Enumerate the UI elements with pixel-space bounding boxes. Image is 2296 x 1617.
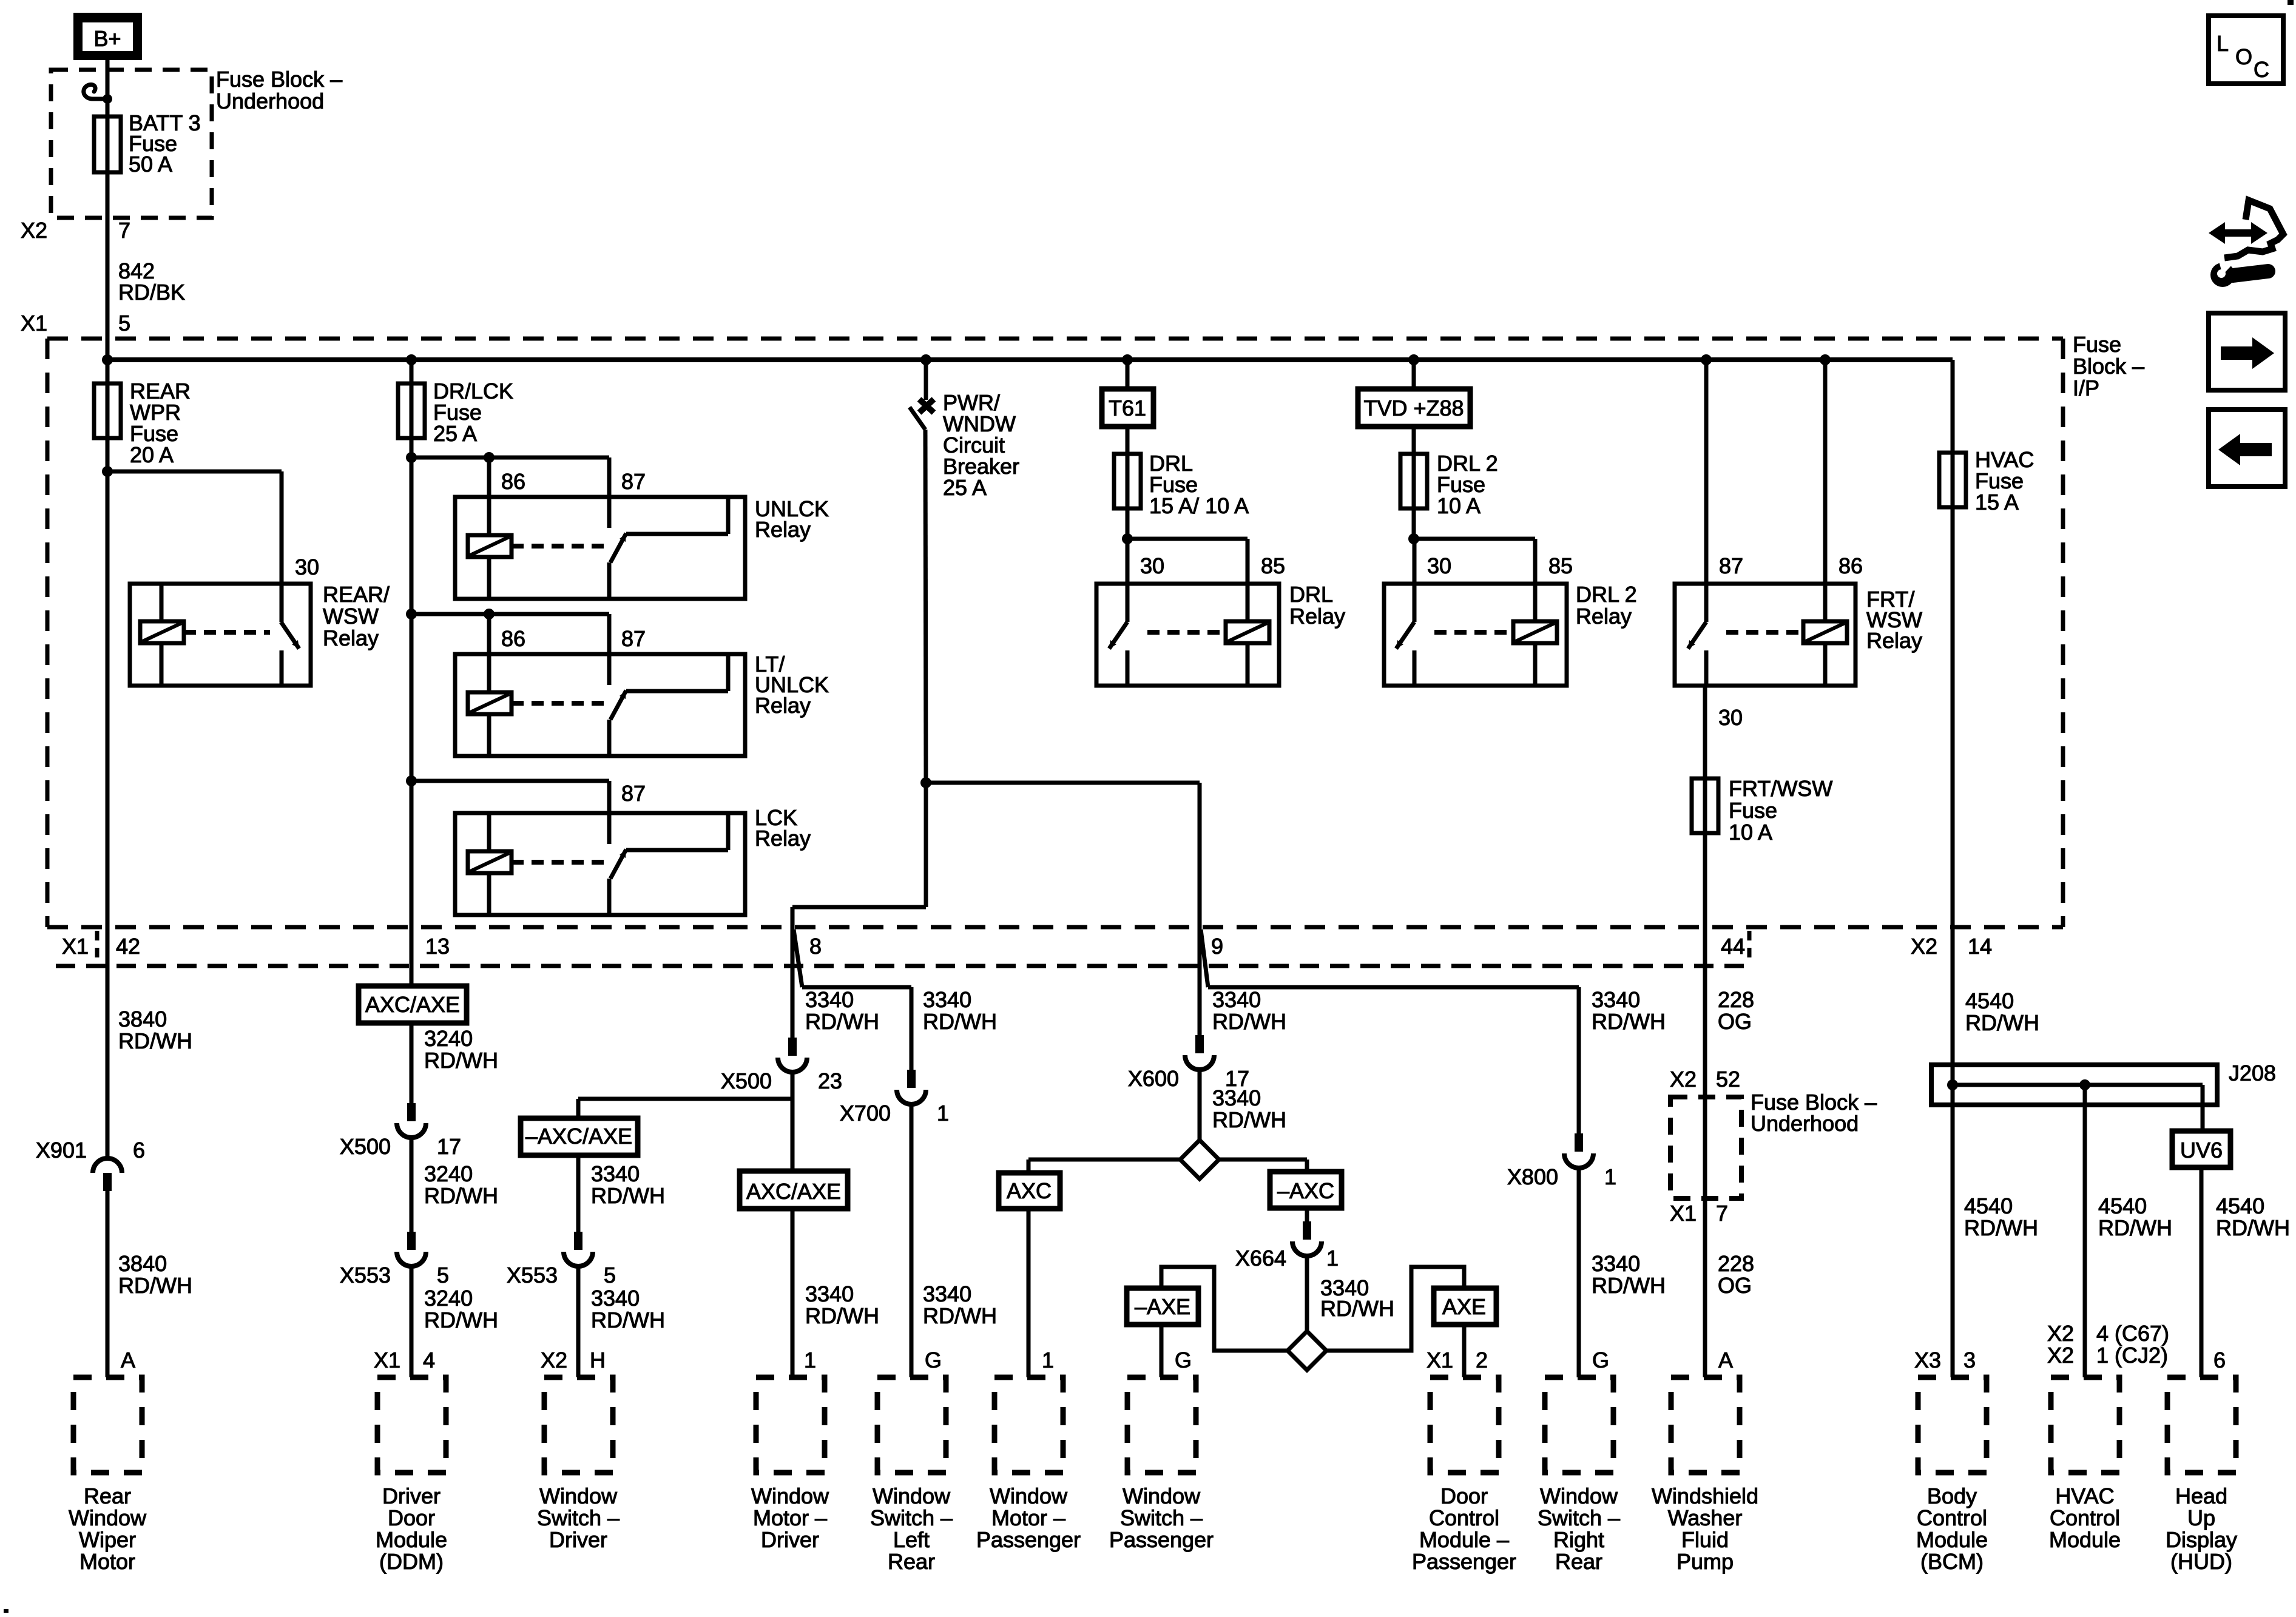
svg-text:1 (CJ2): 1 (CJ2) bbox=[2096, 1343, 2168, 1368]
svg-text:8: 8 bbox=[809, 934, 822, 959]
svg-text:X600: X600 bbox=[1128, 1066, 1179, 1091]
svg-text:OG: OG bbox=[1718, 1273, 1752, 1298]
svg-text:Module: Module bbox=[1916, 1527, 1988, 1552]
svg-text:Body: Body bbox=[1927, 1484, 1977, 1508]
svg-text:Fluid: Fluid bbox=[1681, 1527, 1729, 1552]
svg-text:3840: 3840 bbox=[118, 1007, 167, 1031]
svg-text:4540: 4540 bbox=[1964, 1193, 2013, 1218]
svg-text:X500: X500 bbox=[340, 1134, 391, 1159]
svg-text:Control: Control bbox=[1429, 1505, 1499, 1530]
svg-text:RD/WH: RD/WH bbox=[923, 1303, 997, 1328]
svg-text:85: 85 bbox=[1261, 553, 1285, 578]
svg-text:X500: X500 bbox=[721, 1068, 772, 1093]
svg-text:B+: B+ bbox=[93, 26, 121, 51]
svg-text:3340: 3340 bbox=[1592, 1251, 1640, 1276]
svg-text:Fuse: Fuse bbox=[1729, 798, 1777, 823]
svg-text:4: 4 bbox=[423, 1348, 435, 1372]
svg-text:H: H bbox=[590, 1348, 606, 1372]
svg-text:Control: Control bbox=[1917, 1505, 1987, 1530]
svg-text:X3: X3 bbox=[1914, 1348, 1941, 1372]
svg-text:Motor –: Motor – bbox=[991, 1505, 1065, 1530]
svg-text:30: 30 bbox=[295, 555, 319, 579]
svg-text:7: 7 bbox=[1716, 1201, 1728, 1226]
svg-text:3340: 3340 bbox=[805, 1281, 854, 1306]
svg-text:30: 30 bbox=[1427, 553, 1451, 578]
svg-text:1: 1 bbox=[804, 1348, 816, 1372]
svg-text:5: 5 bbox=[604, 1263, 616, 1288]
svg-text:3240: 3240 bbox=[424, 1026, 473, 1051]
svg-text:RD/WH: RD/WH bbox=[424, 1183, 498, 1208]
svg-text:87: 87 bbox=[621, 469, 646, 494]
svg-text:X2: X2 bbox=[1911, 934, 1937, 959]
svg-text:3840: 3840 bbox=[118, 1251, 167, 1276]
svg-text:X2: X2 bbox=[21, 218, 47, 243]
svg-text:Door: Door bbox=[388, 1505, 435, 1530]
svg-text:A: A bbox=[121, 1348, 135, 1372]
svg-text:3340: 3340 bbox=[591, 1161, 640, 1186]
svg-text:AXE: AXE bbox=[1442, 1294, 1486, 1319]
svg-text:50 A: 50 A bbox=[129, 152, 172, 177]
svg-text:X1: X1 bbox=[374, 1348, 400, 1372]
svg-text:85: 85 bbox=[1548, 553, 1573, 578]
svg-text:15 A/ 10 A: 15 A/ 10 A bbox=[1149, 493, 1249, 518]
svg-text:4540: 4540 bbox=[2216, 1193, 2264, 1218]
svg-text:44: 44 bbox=[1721, 934, 1745, 959]
svg-text:RD/WH: RD/WH bbox=[591, 1308, 665, 1332]
svg-text:86: 86 bbox=[1838, 553, 1863, 578]
svg-text:87: 87 bbox=[621, 626, 646, 651]
svg-text:X1: X1 bbox=[62, 934, 89, 959]
svg-text:4540: 4540 bbox=[2098, 1193, 2147, 1218]
svg-text:RD/WH: RD/WH bbox=[805, 1303, 879, 1328]
svg-text:3: 3 bbox=[1963, 1348, 1976, 1372]
svg-text:Up: Up bbox=[2187, 1505, 2215, 1530]
svg-text:Washer: Washer bbox=[1668, 1505, 1743, 1530]
svg-text:10 A: 10 A bbox=[1437, 493, 1481, 518]
svg-text:Switch –: Switch – bbox=[1120, 1505, 1203, 1530]
svg-text:RD/WH: RD/WH bbox=[118, 1028, 192, 1053]
svg-text:Switch –: Switch – bbox=[537, 1505, 620, 1530]
svg-text:42: 42 bbox=[116, 934, 140, 959]
svg-text:Switch –: Switch – bbox=[870, 1505, 953, 1530]
svg-text:Switch –: Switch – bbox=[1538, 1505, 1620, 1530]
svg-text:RD/WH: RD/WH bbox=[1592, 1009, 1666, 1034]
svg-text:Display: Display bbox=[2166, 1527, 2237, 1552]
svg-text:87: 87 bbox=[621, 781, 646, 806]
svg-text:Relay: Relay bbox=[1576, 604, 1632, 629]
svg-text:Driver: Driver bbox=[549, 1527, 607, 1552]
svg-text:Right: Right bbox=[1553, 1527, 1604, 1552]
svg-text:RD/WH: RD/WH bbox=[1964, 1215, 2038, 1240]
svg-text:Driver: Driver bbox=[382, 1484, 441, 1508]
svg-text:(BCM): (BCM) bbox=[1920, 1549, 1984, 1574]
svg-text:3340: 3340 bbox=[1212, 987, 1261, 1012]
svg-text:Rear: Rear bbox=[888, 1549, 935, 1574]
svg-text:X2: X2 bbox=[2047, 1343, 2074, 1368]
svg-text:DRL: DRL bbox=[1289, 582, 1333, 607]
svg-text:Block –: Block – bbox=[2073, 354, 2144, 379]
svg-text:17: 17 bbox=[437, 1134, 461, 1159]
svg-text:Underhood: Underhood bbox=[1751, 1111, 1859, 1136]
svg-text:228: 228 bbox=[1718, 987, 1754, 1012]
svg-text:T61: T61 bbox=[1109, 396, 1146, 420]
svg-text:23: 23 bbox=[818, 1068, 842, 1093]
svg-text:30: 30 bbox=[1140, 553, 1164, 578]
svg-text:7: 7 bbox=[118, 218, 130, 243]
svg-text:X664: X664 bbox=[1235, 1246, 1286, 1271]
svg-text:X700: X700 bbox=[840, 1101, 891, 1126]
svg-text:A: A bbox=[1718, 1348, 1733, 1372]
svg-text:FRT/WSW: FRT/WSW bbox=[1729, 776, 1832, 801]
svg-text:AXC/AXE: AXC/AXE bbox=[746, 1179, 841, 1204]
svg-text:Left: Left bbox=[893, 1527, 930, 1552]
svg-text:3340: 3340 bbox=[1212, 1085, 1261, 1110]
svg-text:DRL 2: DRL 2 bbox=[1576, 582, 1637, 607]
svg-text:Motor –: Motor – bbox=[753, 1505, 827, 1530]
svg-text:X2: X2 bbox=[2047, 1321, 2074, 1346]
svg-text:Window: Window bbox=[69, 1505, 147, 1530]
svg-text:Relay: Relay bbox=[755, 517, 811, 542]
svg-text:AXC: AXC bbox=[1007, 1178, 1052, 1203]
svg-text:20 A: 20 A bbox=[130, 442, 174, 467]
svg-text:Driver: Driver bbox=[761, 1527, 819, 1552]
svg-text:X1: X1 bbox=[1427, 1348, 1453, 1372]
svg-text:RD/WH: RD/WH bbox=[1212, 1009, 1286, 1034]
svg-text:2: 2 bbox=[1476, 1348, 1488, 1372]
svg-text:RD/WH: RD/WH bbox=[424, 1308, 498, 1332]
svg-text:REAR/: REAR/ bbox=[323, 582, 390, 607]
svg-text:J208: J208 bbox=[2229, 1061, 2276, 1085]
svg-text:1: 1 bbox=[1326, 1246, 1339, 1271]
svg-text:Window: Window bbox=[1123, 1484, 1201, 1508]
svg-text:X1: X1 bbox=[21, 311, 47, 336]
svg-text:Module –: Module – bbox=[1419, 1527, 1509, 1552]
svg-text:Head: Head bbox=[2175, 1484, 2227, 1508]
svg-text:RD/WH: RD/WH bbox=[1965, 1010, 2039, 1035]
svg-text:UV6: UV6 bbox=[2180, 1138, 2223, 1163]
svg-text:Relay: Relay bbox=[755, 693, 811, 718]
svg-text:1: 1 bbox=[937, 1101, 949, 1126]
svg-text:–AXE: –AXE bbox=[1135, 1294, 1190, 1319]
svg-text:Passenger: Passenger bbox=[976, 1527, 1081, 1552]
svg-text:X553: X553 bbox=[340, 1263, 391, 1288]
svg-text:–AXC/AXE: –AXC/AXE bbox=[525, 1124, 632, 1149]
svg-text:–AXC: –AXC bbox=[1277, 1178, 1334, 1203]
svg-text:RD/WH: RD/WH bbox=[805, 1009, 879, 1034]
svg-text:X1: X1 bbox=[1670, 1201, 1697, 1226]
svg-text:O: O bbox=[2235, 44, 2252, 69]
svg-text:87: 87 bbox=[1719, 553, 1743, 578]
svg-text:30: 30 bbox=[1718, 705, 1743, 730]
svg-text:Window: Window bbox=[1540, 1484, 1618, 1508]
svg-text:Window: Window bbox=[873, 1484, 951, 1508]
svg-text:4540: 4540 bbox=[1965, 988, 2014, 1013]
svg-text:13: 13 bbox=[425, 934, 450, 959]
svg-text:6: 6 bbox=[133, 1138, 145, 1163]
svg-text:3240: 3240 bbox=[424, 1286, 473, 1311]
svg-text:Passenger: Passenger bbox=[1412, 1549, 1516, 1574]
svg-text:Window: Window bbox=[751, 1484, 829, 1508]
svg-text:Motor: Motor bbox=[79, 1549, 135, 1574]
svg-text:Passenger: Passenger bbox=[1109, 1527, 1214, 1552]
svg-text:RD/WH: RD/WH bbox=[1212, 1107, 1286, 1132]
svg-text:RD/WH: RD/WH bbox=[923, 1009, 997, 1034]
svg-text:X2: X2 bbox=[1670, 1067, 1697, 1092]
svg-text:X2: X2 bbox=[541, 1348, 567, 1372]
svg-text:3240: 3240 bbox=[424, 1161, 473, 1186]
svg-text:Underhood: Underhood bbox=[216, 89, 324, 113]
svg-text:3340: 3340 bbox=[1592, 987, 1640, 1012]
svg-text:3340: 3340 bbox=[591, 1286, 640, 1311]
svg-text:AXC/AXE: AXC/AXE bbox=[365, 992, 460, 1017]
svg-text:WSW: WSW bbox=[323, 604, 379, 629]
svg-text:C: C bbox=[2254, 57, 2269, 82]
svg-text:Fuse: Fuse bbox=[2073, 332, 2121, 357]
svg-text:Rear: Rear bbox=[84, 1484, 131, 1508]
svg-text:L: L bbox=[2217, 31, 2229, 56]
svg-text:3340: 3340 bbox=[923, 987, 971, 1012]
svg-text:TVD +Z88: TVD +Z88 bbox=[1363, 396, 1464, 420]
svg-text:Control: Control bbox=[2050, 1505, 2120, 1530]
svg-text:228: 228 bbox=[1718, 1251, 1754, 1276]
svg-text:RD/WH: RD/WH bbox=[591, 1183, 665, 1208]
svg-text:X901: X901 bbox=[36, 1138, 87, 1163]
svg-text:25 A: 25 A bbox=[943, 475, 987, 500]
svg-text:Wiper: Wiper bbox=[79, 1527, 136, 1552]
svg-text:Relay: Relay bbox=[1866, 628, 1922, 653]
svg-text:I/P: I/P bbox=[2073, 376, 2099, 400]
svg-text:Rear: Rear bbox=[1555, 1549, 1602, 1574]
svg-text:Windshield: Windshield bbox=[1652, 1484, 1758, 1508]
svg-text:RD/WH: RD/WH bbox=[424, 1048, 498, 1073]
svg-text:Relay: Relay bbox=[323, 626, 379, 650]
svg-text:RD/BK: RD/BK bbox=[118, 280, 185, 305]
svg-text:5: 5 bbox=[437, 1263, 449, 1288]
svg-text:Window: Window bbox=[990, 1484, 1068, 1508]
svg-text:10 A: 10 A bbox=[1729, 820, 1772, 845]
svg-text:6: 6 bbox=[2213, 1348, 2226, 1372]
svg-text:9: 9 bbox=[1211, 934, 1223, 959]
svg-text:1: 1 bbox=[1604, 1164, 1616, 1189]
svg-text:RD/WH: RD/WH bbox=[1320, 1296, 1394, 1321]
svg-text:Window: Window bbox=[539, 1484, 618, 1508]
svg-text:X553: X553 bbox=[507, 1263, 558, 1288]
svg-text:Fuse Block –: Fuse Block – bbox=[216, 67, 342, 92]
svg-text:15 A: 15 A bbox=[1975, 490, 2019, 515]
svg-text:RD/WH: RD/WH bbox=[2216, 1215, 2290, 1240]
svg-text:5: 5 bbox=[118, 311, 130, 336]
svg-text:X800: X800 bbox=[1507, 1164, 1558, 1189]
svg-text:RD/WH: RD/WH bbox=[118, 1273, 192, 1298]
svg-text:4 (C67): 4 (C67) bbox=[2096, 1321, 2169, 1346]
svg-text:3340: 3340 bbox=[923, 1281, 971, 1306]
svg-text:86: 86 bbox=[501, 469, 525, 494]
svg-text:RD/WH: RD/WH bbox=[1592, 1273, 1666, 1298]
svg-text:HVAC: HVAC bbox=[2055, 1484, 2114, 1508]
svg-text:Relay: Relay bbox=[1289, 604, 1345, 629]
svg-text:OG: OG bbox=[1718, 1009, 1752, 1034]
svg-text:25 A: 25 A bbox=[433, 421, 477, 446]
svg-text:1: 1 bbox=[1042, 1348, 1054, 1372]
svg-text:RD/WH: RD/WH bbox=[2098, 1215, 2172, 1240]
svg-text:Door: Door bbox=[1440, 1484, 1488, 1508]
svg-text:Pump: Pump bbox=[1676, 1549, 1734, 1574]
svg-text:(DDM): (DDM) bbox=[379, 1549, 444, 1574]
svg-text:52: 52 bbox=[1716, 1067, 1740, 1092]
svg-text:G: G bbox=[925, 1348, 942, 1372]
svg-text:3340: 3340 bbox=[805, 987, 854, 1012]
svg-text:14: 14 bbox=[1968, 934, 1992, 959]
svg-text:(HUD): (HUD) bbox=[2170, 1549, 2232, 1574]
svg-text:G: G bbox=[1592, 1348, 1609, 1372]
svg-text:Module: Module bbox=[2049, 1527, 2121, 1552]
svg-text:86: 86 bbox=[501, 626, 525, 651]
svg-text:Relay: Relay bbox=[755, 826, 811, 851]
svg-text:Module: Module bbox=[376, 1527, 447, 1552]
svg-text:G: G bbox=[1175, 1348, 1192, 1372]
